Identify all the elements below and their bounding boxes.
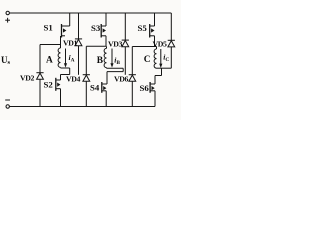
svg-text:VD6: VD6 — [114, 74, 129, 83]
svg-text:A: A — [46, 56, 53, 66]
svg-text:Us: Us — [1, 55, 11, 66]
svg-text:iA: iA — [69, 53, 75, 63]
switch S6 — [150, 68, 161, 106]
label S1 — [44, 23, 53, 33]
current arrow iA — [64, 49, 67, 68]
top rail wire — [10, 12, 172, 14]
switch S5 — [150, 13, 155, 47]
winding B coil — [104, 46, 106, 68]
label S4 — [90, 82, 100, 92]
diode VD5 — [168, 13, 175, 68]
svg-text:iC: iC — [163, 53, 169, 63]
label B — [97, 56, 103, 66]
svg-text:S2: S2 — [44, 80, 54, 90]
svg-text:iB: iB — [114, 56, 120, 66]
label iA — [69, 53, 75, 63]
node Y_A wire — [61, 67, 70, 69]
terminal + (positive) — [5, 11, 10, 22]
node X_C wire — [132, 46, 156, 48]
winding A coil — [58, 45, 60, 69]
svg-text:VD2: VD2 — [20, 74, 35, 83]
label S3 — [91, 23, 101, 33]
label S2 — [44, 80, 54, 90]
label iC — [163, 53, 169, 63]
diode VD6 — [129, 47, 136, 107]
switch S1 — [61, 13, 70, 45]
svg-text:VD4: VD4 — [66, 75, 81, 84]
label VD2 — [20, 74, 35, 83]
switch S2 — [56, 68, 70, 107]
label VD5 — [153, 40, 168, 49]
node Y_C wire — [157, 67, 172, 69]
svg-text:B: B — [97, 56, 103, 66]
source label Us — [1, 55, 11, 66]
svg-text:S6: S6 — [140, 83, 150, 93]
label VD6 — [114, 74, 129, 83]
svg-text:VD1: VD1 — [63, 38, 78, 47]
label VD4 — [66, 75, 81, 84]
node X_B wire — [86, 45, 106, 47]
label iB — [114, 56, 120, 66]
bottom rail wire — [10, 106, 156, 108]
label A — [46, 56, 53, 66]
svg-text:S4: S4 — [90, 82, 100, 92]
label S5 — [138, 23, 148, 33]
label C — [144, 55, 151, 65]
svg-text:VD5: VD5 — [153, 40, 168, 49]
svg-text:S3: S3 — [91, 23, 101, 33]
switch S3 — [101, 13, 106, 46]
label VD1 — [63, 38, 78, 47]
svg-text:S1: S1 — [44, 23, 53, 33]
winding C coil — [154, 47, 156, 69]
diode VD2 — [36, 45, 43, 107]
node Y_B wire — [107, 67, 124, 69]
diode VD4 — [83, 46, 90, 106]
svg-text:VD3: VD3 — [108, 39, 123, 48]
diode VD1 — [75, 13, 82, 75]
label S6 — [140, 83, 150, 93]
current arrow iC — [159, 49, 162, 68]
terminal - (negative) — [5, 100, 10, 108]
node X_A wire — [40, 44, 61, 46]
switch S4 — [102, 68, 123, 106]
diode VD3 — [122, 13, 129, 75]
svg-text:S5: S5 — [138, 23, 148, 33]
svg-text:C: C — [144, 55, 151, 65]
label VD3 — [108, 39, 123, 48]
current arrow iB — [110, 49, 113, 68]
